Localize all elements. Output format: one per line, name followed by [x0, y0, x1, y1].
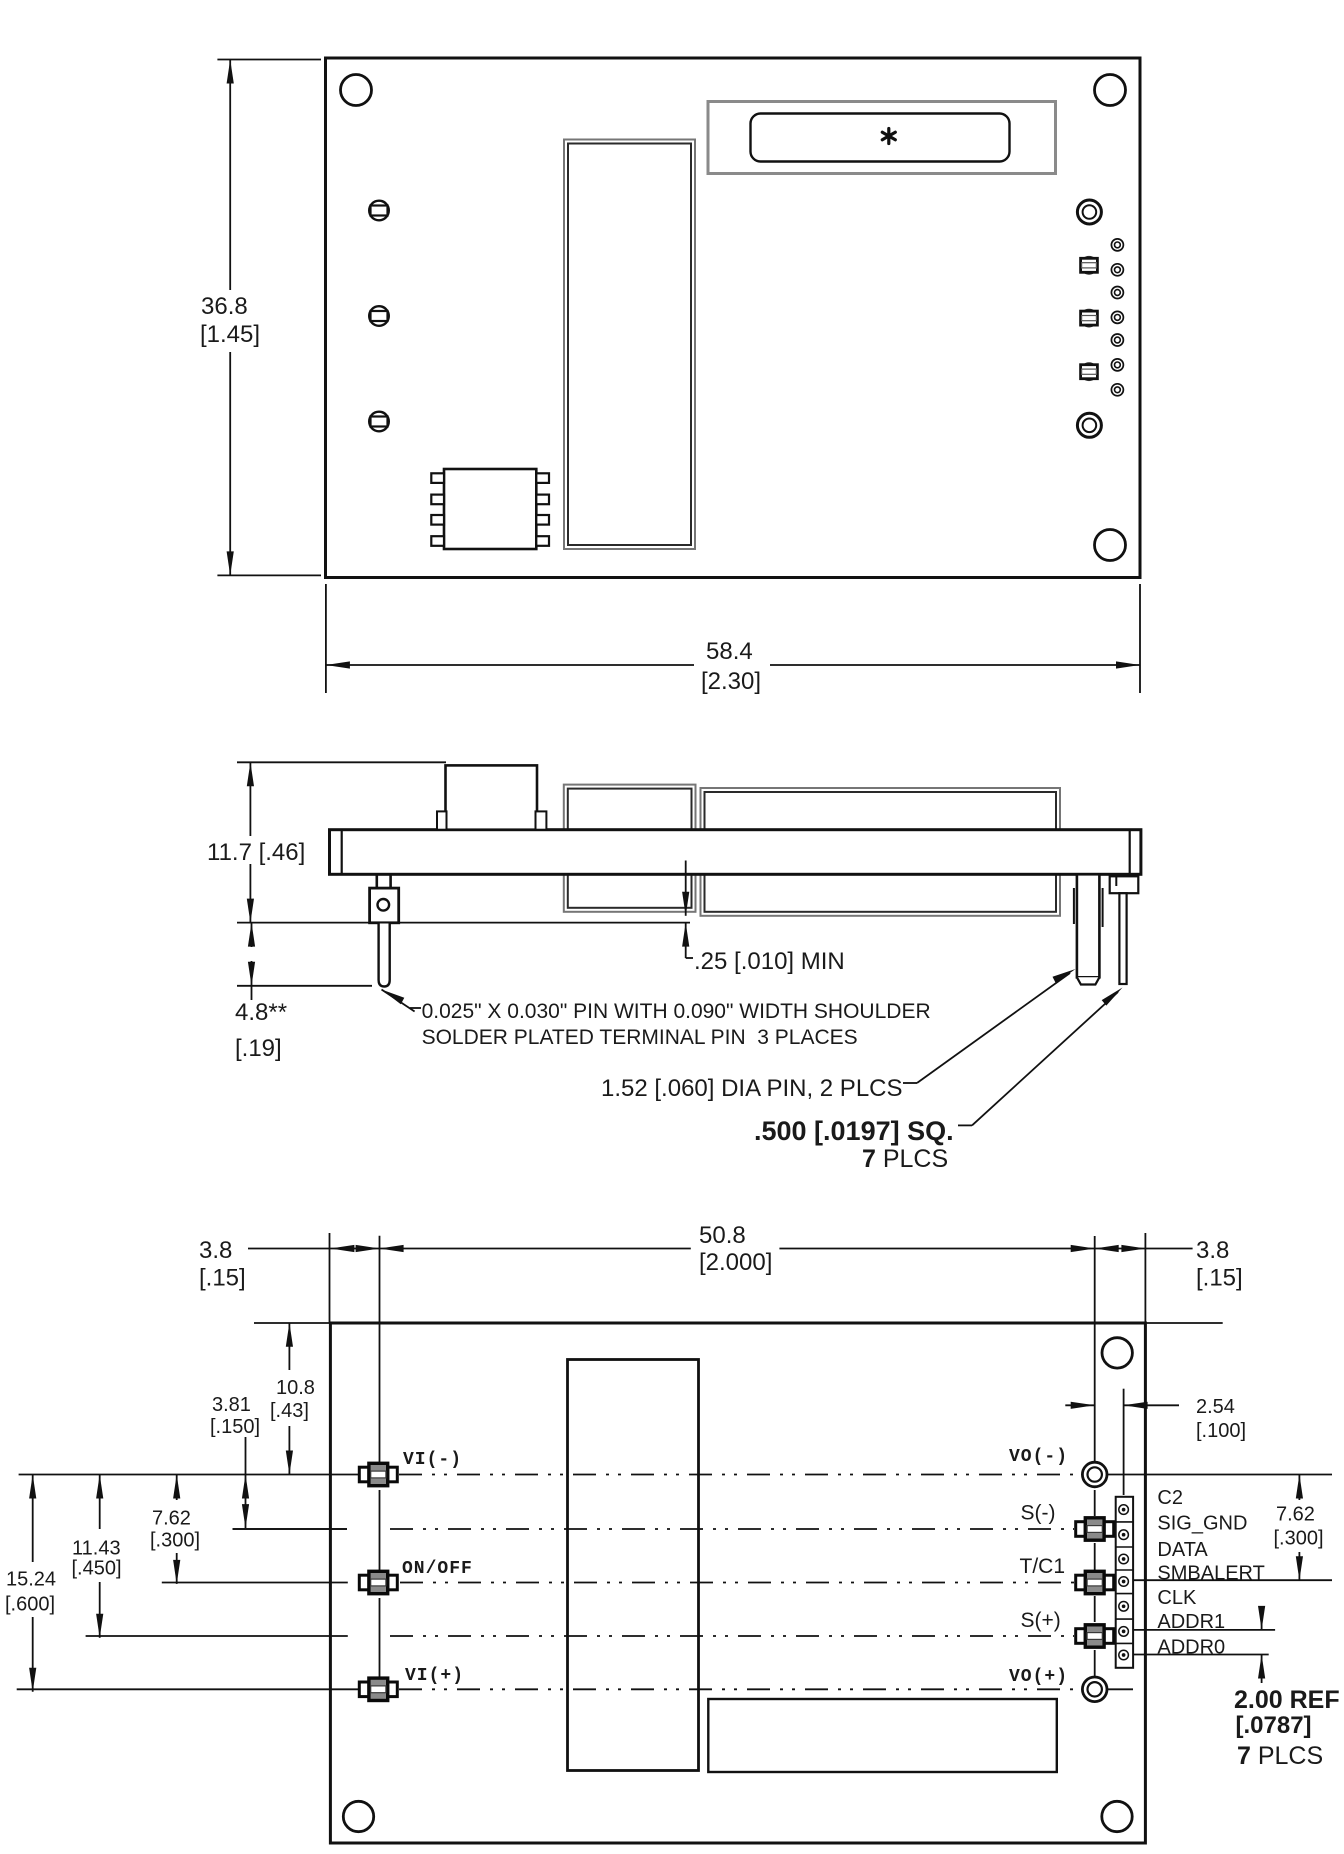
svg-text:11.7 [.46]: 11.7 [.46] [207, 839, 305, 866]
svg-text:.25 [.010] MIN: .25 [.010] MIN [694, 948, 845, 975]
screw terminal VI(-) top view [369, 201, 389, 221]
svg-text:ADDR1: ADDR1 [1157, 1611, 1225, 1633]
mounting hole bottom-right bottom view [1102, 1801, 1132, 1831]
svg-text:[.19]: [.19] [235, 1035, 282, 1062]
screw pin S(-) bottom view [1076, 1518, 1114, 1540]
svg-text:[.0787]: [.0787] [1236, 1712, 1312, 1739]
svg-text:[.600]: [.600] [5, 1594, 55, 1616]
screw pin ON/OFF bottom view [359, 1571, 397, 1593]
leader dia pin note [903, 969, 1076, 1083]
leader sq pin note [958, 988, 1123, 1126]
dimension 2.54 line [1065, 1404, 1179, 1406]
dimension 4.8 line [251, 923, 253, 1000]
leader terminal pin note [382, 990, 422, 1012]
transformer top view [564, 140, 695, 550]
centerline VO(+) row solid right [1108, 1688, 1133, 1690]
screw pin VI(-) bottom view [359, 1463, 397, 1485]
svg-text:VI(-): VI(-) [403, 1450, 462, 1470]
label plate bottom view [708, 1699, 1057, 1772]
svg-text:[.450]: [.450] [72, 1558, 122, 1580]
svg-text:[1.45]: [1.45] [200, 321, 260, 348]
dimension 7.62 right line [1298, 1475, 1300, 1581]
dimension 58.4 line [326, 664, 1140, 666]
terminal pin screw 3 right column top view [1080, 362, 1099, 381]
IC U1 top view [431, 469, 549, 549]
pcb right end line [1129, 830, 1131, 875]
screw terminal VI(+) top view [369, 412, 389, 432]
svg-text:VI(+): VI(+) [405, 1666, 464, 1686]
centerline VI(-) row dashdot [399, 1474, 1081, 1476]
pcb left end cap line [341, 830, 343, 875]
pin hole VO(-) bottom view [1082, 1462, 1107, 1487]
centerline S(-) row dashdot [390, 1528, 1074, 1530]
solder terminal pin with shoulder side view [370, 874, 399, 986]
connector pad dots [1119, 1505, 1129, 1660]
pin hole VO(+) bottom view [1082, 1677, 1107, 1702]
svg-text:7 PLCS: 7 PLCS [862, 1145, 948, 1173]
dimension 36.8 extension line top [217, 59, 321, 61]
line ADDR0 row right [1133, 1654, 1269, 1656]
smb connector edge side view [1110, 876, 1139, 893]
SMB connector pads column top view [1111, 239, 1123, 396]
dimension 3.81 line [245, 1437, 247, 1528]
arrow .25 min upper [685, 861, 687, 916]
svg-text:[.15]: [.15] [1196, 1265, 1243, 1292]
pin column line left [379, 1236, 381, 1680]
dimension 11.7 line [249, 762, 251, 922]
mounting hole top-right bottom view [1102, 1338, 1132, 1368]
output pin hole VO(+) top view [1077, 413, 1101, 437]
svg-text:DATA: DATA [1157, 1539, 1208, 1561]
dimension 11.43 line [99, 1475, 101, 1638]
screw pin S(+) bottom view [1076, 1625, 1114, 1647]
screw pin T/C1 bottom view [1076, 1571, 1114, 1593]
svg-text:50.8: 50.8 [699, 1222, 746, 1249]
svg-text:3.8: 3.8 [199, 1237, 232, 1264]
svg-text:3.81: 3.81 [212, 1394, 251, 1416]
svg-text:C2: C2 [1157, 1487, 1183, 1509]
mounting hole top-left [341, 75, 372, 106]
svg-text:.500 [.0197] SQ.: .500 [.0197] SQ. [754, 1116, 954, 1146]
svg-text:VO(+): VO(+) [1009, 1667, 1068, 1687]
extension line S(-) level left [233, 1528, 348, 1530]
board outline top view [326, 58, 1141, 578]
reference line pin tip bottom [237, 985, 372, 987]
label plate top view [708, 102, 1056, 174]
dimension 58.4 extension line left [325, 584, 327, 693]
extension line board left col [329, 1233, 331, 1323]
svg-text:[.43]: [.43] [270, 1400, 309, 1422]
svg-text:[2.30]: [2.30] [701, 668, 761, 695]
extension line connector col [1123, 1389, 1125, 1495]
transformer bottom view [568, 1360, 699, 1771]
dimension 15.24 line [32, 1475, 34, 1692]
dimension 58.4 extension line right [1139, 584, 1141, 693]
pin column line right [1094, 1236, 1096, 1676]
mounting hole bottom-right [1095, 530, 1126, 561]
svg-text:[.150]: [.150] [210, 1416, 260, 1438]
svg-text:S(+): S(+) [1021, 1609, 1061, 1632]
svg-text:[.100]: [.100] [1196, 1420, 1246, 1442]
board top edge extension right [1145, 1322, 1222, 1324]
reference line pin shoulder bottom [237, 922, 690, 924]
svg-text:10.8: 10.8 [276, 1377, 315, 1399]
dimension line 3.8 left / 50.8 / 3.8 right [248, 1248, 1193, 1250]
output pin hole VO(-) top view [1077, 200, 1101, 224]
svg-text:15.24: 15.24 [6, 1569, 56, 1591]
dia pin side view [1074, 874, 1103, 984]
svg-text:T/C1: T/C1 [1020, 1555, 1066, 1578]
square pin side view [1119, 893, 1126, 984]
centerline S(+) row solid left [86, 1635, 348, 1637]
transformer side view [564, 785, 696, 912]
centerline ON/OFF row dashdot [400, 1582, 1074, 1584]
SMB connector strip bottom view [1116, 1497, 1133, 1668]
board outline bottom view [330, 1323, 1145, 1843]
svg-text:2.00 REF: 2.00 REF [1234, 1686, 1340, 1714]
centerline VO(-) row solid right [1108, 1474, 1332, 1476]
svg-text:7.62: 7.62 [152, 1508, 191, 1530]
svg-text:ADDR0: ADDR0 [1157, 1637, 1225, 1659]
svg-text:58.4: 58.4 [706, 638, 753, 665]
svg-text:CLK: CLK [1157, 1587, 1197, 1609]
arrow .25 min lower [685, 923, 687, 958]
pcb board side view [330, 830, 1141, 875]
centerline ON/OFF row solid left [162, 1582, 348, 1584]
centerline VI(-) row solid left [19, 1474, 360, 1476]
centerline VI(+) row solid left [17, 1688, 360, 1690]
centerline S(+) row dashdot [390, 1635, 1074, 1637]
output block side view [701, 788, 1061, 916]
board top edge extension left [254, 1322, 330, 1324]
svg-text:[.15]: [.15] [199, 1265, 246, 1292]
svg-text:7.62: 7.62 [1276, 1504, 1315, 1526]
svg-text:S(-): S(-) [1021, 1501, 1056, 1524]
dimension 2.00 REF line [1261, 1608, 1263, 1683]
centerline S(-) row solid left [233, 1528, 348, 1530]
line ADDR1 row right [1133, 1629, 1275, 1631]
svg-text:SOLDER PLATED TERMINAL PIN 3: SOLDER PLATED TERMINAL PIN 3 PLACES [422, 1026, 858, 1049]
line T/C1 row right [1133, 1579, 1332, 1581]
terminal pin screw 2 right column top view [1080, 309, 1099, 328]
svg-text:7 PLCS: 7 PLCS [1237, 1742, 1323, 1770]
mounting hole top-right [1095, 75, 1126, 106]
svg-text:4.8**: 4.8** [235, 999, 287, 1026]
TO-220 component side view [437, 765, 546, 829]
svg-text:SIG_GND: SIG_GND [1157, 1513, 1247, 1535]
svg-text:[.300]: [.300] [150, 1530, 200, 1552]
extension line board right col [1144, 1233, 1146, 1323]
dimension 11.7 extension line top [237, 761, 446, 763]
svg-text:[2.000]: [2.000] [699, 1249, 772, 1276]
centerline VI(+) row dashdot [399, 1688, 1081, 1690]
dimension 36.8 line [229, 60, 231, 576]
svg-text:[.300]: [.300] [1274, 1527, 1324, 1549]
svg-text:ON/OFF: ON/OFF [402, 1559, 473, 1579]
screw pin VI(+) bottom view [359, 1678, 397, 1700]
svg-text:SMBALERT: SMBALERT [1157, 1563, 1264, 1585]
mounting hole bottom-left bottom view [343, 1801, 373, 1831]
svg-text:2.54: 2.54 [1196, 1396, 1235, 1418]
svg-text:1.52 [.060] DIA PIN, 2 PLCS: 1.52 [.060] DIA PIN, 2 PLCS [601, 1075, 903, 1102]
terminal pin screw 1 right column top view [1080, 256, 1099, 275]
dimension 36.8 extension line bottom [217, 574, 321, 576]
svg-text:3.8: 3.8 [1196, 1237, 1229, 1264]
dimension 7.62 left line [176, 1475, 178, 1584]
asterisk on label [882, 129, 895, 144]
dimension 10.8 line [288, 1323, 290, 1475]
svg-text:36.8: 36.8 [201, 293, 248, 320]
screw terminal ON/OFF top view [369, 306, 389, 326]
svg-text:VO(-): VO(-) [1009, 1447, 1068, 1467]
svg-text:0.025" X 0.030" PIN WITH 0.090: 0.025" X 0.030" PIN WITH 0.090" WIDTH SH… [422, 1000, 931, 1023]
svg-text:11.43: 11.43 [72, 1538, 121, 1560]
